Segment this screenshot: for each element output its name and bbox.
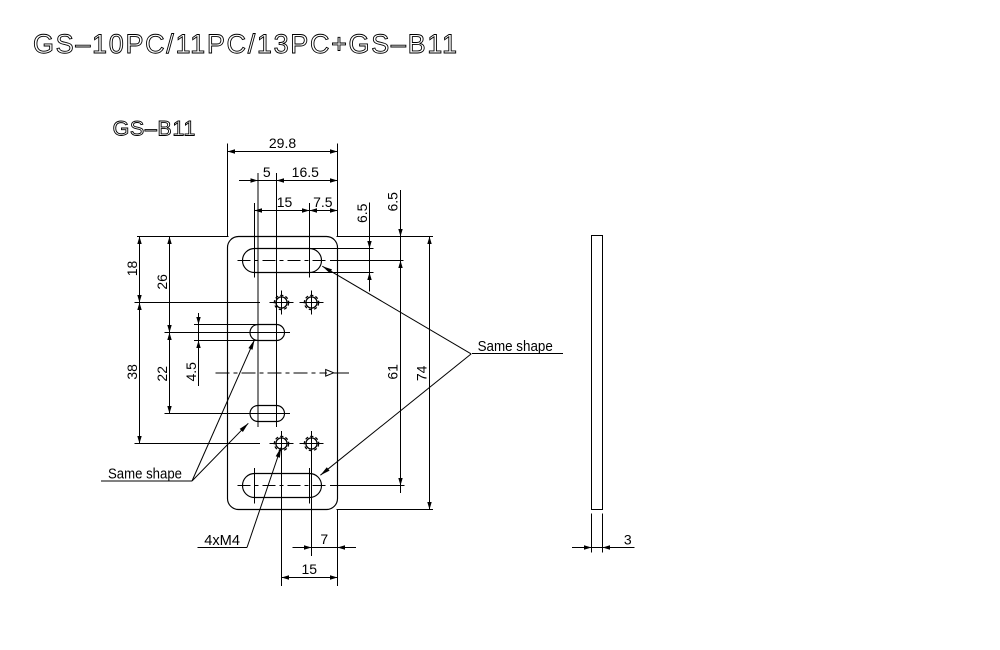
upper-left hole crosshair <box>281 291 283 315</box>
extension line bottom slot right arc center <box>309 468 311 503</box>
svg-text:7: 7 <box>320 531 328 547</box>
svg-text:4xM4: 4xM4 <box>204 532 240 549</box>
upper-right hole thread circle dashed <box>304 295 318 309</box>
extension line right hole column down <box>311 431 313 556</box>
dimension 7 line <box>293 547 357 549</box>
lower small slot outline <box>250 406 285 422</box>
bottom slot centerline dashed <box>238 485 327 487</box>
upper-right hole tap circle <box>306 297 317 308</box>
extension line plate top left <box>137 236 229 238</box>
horizontal center line dash-dot with arrow <box>216 372 328 374</box>
svg-text:Same shape: Same shape <box>478 338 553 355</box>
extension line slot right arc center x=309 <box>309 203 311 278</box>
extension line middle slot center left <box>165 332 291 334</box>
dimension 5 and 16.5 line <box>239 180 338 182</box>
lower-right hole crosshair <box>311 432 313 456</box>
extension line plate left above <box>227 144 229 237</box>
dimension 15 bottom line <box>282 577 338 579</box>
svg-text:GS–10PC/11PC/13PC+GS–B11: GS–10PC/11PC/13PC+GS–B11 <box>33 29 457 59</box>
middle small slot outline <box>250 325 285 341</box>
svg-text:7.5: 7.5 <box>313 194 333 210</box>
lower-left hole crosshair <box>281 432 283 456</box>
extension line plate right below <box>337 510 339 586</box>
upper-left hole thread circle dashed <box>274 295 288 309</box>
extension line bottom slot left arc center <box>254 468 256 503</box>
extension line left hole column down <box>281 431 283 586</box>
dimension 26 and 22 line <box>169 237 171 414</box>
extension line small slots left arc center x=258 <box>257 173 259 427</box>
svg-text:18: 18 <box>124 261 140 277</box>
upper-right hole crosshair <box>311 291 313 315</box>
dimension 15 and 7.5 line <box>255 210 338 212</box>
dimension 29.8 line <box>228 151 338 153</box>
extension line bottom slot center right <box>330 485 405 487</box>
svg-text:74: 74 <box>414 365 430 381</box>
leader right to bottom slot <box>320 354 471 475</box>
side view extension line left <box>591 513 593 552</box>
leader 4xM4 to lower-left hole <box>247 448 281 548</box>
svg-text:16.5: 16.5 <box>292 164 319 180</box>
svg-text:6.5: 6.5 <box>354 203 370 223</box>
dimension 74 line <box>429 237 431 510</box>
svg-text:38: 38 <box>124 364 140 380</box>
side view plate outline <box>592 236 603 510</box>
plate outline front view <box>228 237 338 510</box>
extension line slot left arc center x=254 <box>254 203 256 278</box>
svg-text:4.5: 4.5 <box>183 362 199 382</box>
svg-text:61: 61 <box>385 364 401 380</box>
svg-text:22: 22 <box>154 366 170 382</box>
svg-text:29.8: 29.8 <box>269 135 296 151</box>
top slot centerline dashed <box>238 260 327 262</box>
svg-text:5: 5 <box>263 164 271 180</box>
svg-text:GS–B11: GS–B11 <box>113 117 196 141</box>
extension line top slot bottom edge right <box>310 272 374 274</box>
svg-text:Same shape: Same shape <box>108 466 182 483</box>
extension line small slots right arc center x=276 <box>276 173 278 427</box>
svg-text:3: 3 <box>624 532 632 548</box>
extension line top slot top edge right <box>310 248 374 250</box>
extension line middle slot top left <box>194 324 277 326</box>
extension line plate bottom right <box>337 509 434 511</box>
svg-text:26: 26 <box>154 274 170 290</box>
extension line lower holes left <box>134 443 260 445</box>
extension line plate top right <box>337 236 434 238</box>
lower-left hole tap circle <box>276 438 287 449</box>
bottom slot outline <box>243 474 322 498</box>
side view extension line right <box>602 513 604 552</box>
extension line lower slot center left <box>165 413 291 415</box>
lower-right hole thread circle dashed <box>304 436 318 450</box>
dimension 6.5 slot width line <box>369 203 371 292</box>
extension line upper holes left <box>134 302 260 304</box>
lower-right hole tap circle <box>306 438 317 449</box>
dimension 18 and 38 line <box>139 237 141 444</box>
extension line middle slot bottom left <box>194 340 277 342</box>
dimension 4.5 line <box>198 313 200 386</box>
extension line plate right above <box>337 144 339 237</box>
leader left to middle slot <box>192 340 255 481</box>
svg-text:15: 15 <box>277 194 293 210</box>
leader right to top slot <box>322 266 471 354</box>
svg-text:15: 15 <box>302 561 318 577</box>
dimension 3 line <box>572 547 635 549</box>
lower-left hole thread circle dashed <box>274 436 288 450</box>
svg-text:6.5: 6.5 <box>385 192 401 212</box>
extension line top slot center right <box>330 260 404 262</box>
leader left to lower slot <box>192 423 248 481</box>
top slot outline <box>243 249 322 273</box>
upper-left hole tap circle <box>276 297 287 308</box>
dimension 6.5 and 61 line <box>400 190 402 493</box>
